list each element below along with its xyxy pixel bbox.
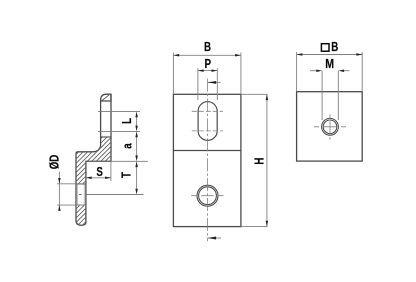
- svg-text:M: M: [325, 57, 334, 71]
- svg-text:ØD: ØD: [48, 155, 61, 170]
- svg-text:a: a: [122, 143, 135, 149]
- svg-text:B: B: [204, 41, 211, 54]
- svg-text:L: L: [121, 118, 134, 124]
- svg-text:B: B: [331, 41, 338, 54]
- svg-text:P: P: [205, 58, 212, 71]
- svg-text:S: S: [96, 166, 103, 179]
- svg-text:H: H: [253, 158, 266, 165]
- svg-text:T: T: [120, 172, 133, 178]
